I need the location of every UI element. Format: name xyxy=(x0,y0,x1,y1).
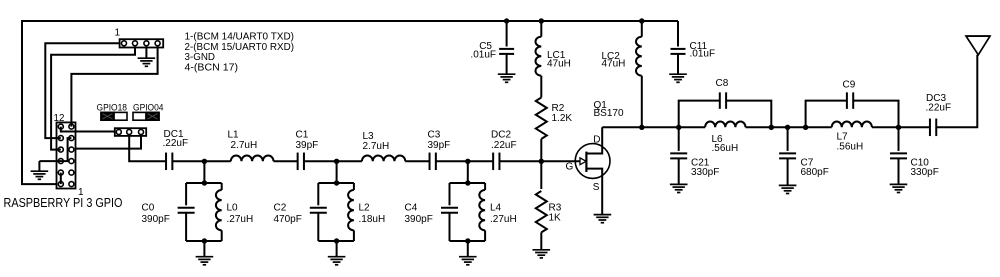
wire R2 to node D xyxy=(540,139,542,161)
connector J1 Raspberry Pi GPIO header body with pins xyxy=(57,122,76,188)
svg-text:C0: C0 xyxy=(142,203,155,214)
wire L3 to C3 xyxy=(405,160,429,162)
inductor L4 xyxy=(484,183,486,190)
resistor R2 xyxy=(536,98,547,139)
svg-text:C8: C8 xyxy=(716,78,729,89)
junction rail LC2 xyxy=(639,18,644,23)
wire R3 to ground xyxy=(540,232,542,249)
wire 3-pin header pin3 to GPIO row3 right xyxy=(76,136,142,149)
capacitor C5 xyxy=(506,21,508,47)
ground under C7 xyxy=(779,184,797,186)
wire jog GPIO row5 left to row6 left xyxy=(60,173,62,185)
wire node B to L3 xyxy=(337,160,362,162)
svg-text:330pF: 330pF xyxy=(911,167,939,178)
jumper block GPIO04 xyxy=(133,112,159,120)
inductor LC2 xyxy=(641,21,643,37)
transistor Q1 gate arrow xyxy=(580,158,586,165)
svg-text:330pF: 330pF xyxy=(691,167,719,178)
ground at GPIO header xyxy=(31,170,49,172)
junction rail LC1 xyxy=(539,18,544,23)
svg-text:.22uF: .22uF xyxy=(163,138,189,149)
svg-text:47uH: 47uH xyxy=(602,59,626,70)
inductor L2 xyxy=(353,183,355,190)
svg-text:2.7uH: 2.7uH xyxy=(231,140,258,151)
svg-text:G: G xyxy=(566,162,574,173)
wire 4-pin header pin1 to GPIO row2 left xyxy=(45,43,119,138)
capacitor C2 xyxy=(317,183,319,205)
wire drain line xyxy=(602,126,705,128)
inductor L0 xyxy=(221,183,223,190)
transistor Q1 source lead xyxy=(586,169,602,215)
ground under tank C2/L2 xyxy=(328,256,346,258)
svg-text:D: D xyxy=(593,134,600,145)
svg-text:L0: L0 xyxy=(227,203,239,214)
junction C8 right xyxy=(769,125,774,130)
capacitor C3 xyxy=(429,153,431,171)
wire C1 to node B xyxy=(304,160,337,162)
capacitor DC3 xyxy=(929,119,931,137)
wire tank top bar xyxy=(186,182,222,184)
inductor L3 xyxy=(362,156,405,162)
svg-text:.56uH: .56uH xyxy=(712,143,739,154)
node B junction xyxy=(334,159,339,164)
capacitor C0 xyxy=(185,183,187,205)
svg-text:C9: C9 xyxy=(843,80,856,91)
svg-text:1.2K: 1.2K xyxy=(552,113,573,124)
svg-text:47uH: 47uH xyxy=(547,59,571,70)
svg-text:39pF: 39pF xyxy=(296,140,319,151)
ground under C10 xyxy=(890,183,908,185)
wire node D to R3 xyxy=(540,161,542,189)
svg-text:1: 1 xyxy=(115,28,121,39)
wire tank top bar xyxy=(318,182,354,184)
svg-text:.27uH: .27uH xyxy=(227,214,254,225)
svg-text:2.7uH: 2.7uH xyxy=(363,141,390,152)
jumper block GPIO18 xyxy=(101,112,127,120)
capacitor C21 xyxy=(678,127,680,151)
svg-text:GPIO18: GPIO18 xyxy=(97,102,128,112)
svg-text:L2: L2 xyxy=(359,203,371,214)
junction tank bottom C2 xyxy=(334,238,339,243)
svg-text:S: S xyxy=(593,182,600,193)
wire node to tank C4/L4 xyxy=(467,161,469,183)
transistor Q1 drain lead xyxy=(586,127,602,153)
capacitor C1 xyxy=(297,153,299,171)
svg-text:.18uH: .18uH xyxy=(359,214,386,225)
capacitor DC1 xyxy=(165,153,167,171)
svg-text:.01uF: .01uF xyxy=(470,50,496,61)
wire node A to L1 xyxy=(204,160,230,162)
svg-text:12: 12 xyxy=(54,113,65,124)
capacitor C7 xyxy=(787,127,789,151)
junction drain C21 C8 xyxy=(676,125,681,130)
capacitor C8 bypass loop xyxy=(679,101,720,128)
svg-text:390pF: 390pF xyxy=(142,214,170,225)
wire tank to ground xyxy=(203,241,205,256)
wire node to tank C0/L0 xyxy=(203,161,205,183)
svg-text:BS170: BS170 xyxy=(594,108,624,119)
antenna xyxy=(966,36,990,55)
resistor R3 xyxy=(536,191,547,232)
capacitor C11 xyxy=(677,21,679,47)
inductor L6 xyxy=(705,122,745,128)
wire L6 to C7 node xyxy=(746,126,832,128)
junction tank bottom C4 xyxy=(465,238,470,243)
inductor LC1 xyxy=(540,21,542,37)
ground at 4-pin header pin3 xyxy=(138,57,156,59)
svg-text:.27uH: .27uH xyxy=(490,214,517,225)
ground under C21 xyxy=(670,183,688,185)
junction C9 right C10 xyxy=(896,125,901,130)
ground under tank C0/L0 xyxy=(196,256,214,258)
connector J3 3-pin jumper header body with pins xyxy=(115,128,146,136)
svg-text:1-(BCM 14/UART0 TXD): 1-(BCM 14/UART0 TXD) xyxy=(185,32,295,43)
wire DC2 to node D xyxy=(500,160,542,162)
wire node to tank C2/L2 xyxy=(336,161,338,183)
junction tank bottom C0 xyxy=(202,238,207,243)
wire L1 to C1 xyxy=(274,160,298,162)
svg-text:.22uF: .22uF xyxy=(491,140,517,151)
wire node C to DC2 xyxy=(468,160,493,162)
junction drain C7 xyxy=(785,125,790,130)
ground under C11 xyxy=(669,73,687,75)
wire 4-pin header pin2 to GPIO row3 left xyxy=(51,48,135,150)
junction tank top C2 xyxy=(334,180,339,185)
svg-text:L4: L4 xyxy=(490,203,502,214)
wire node D to gate xyxy=(541,160,581,162)
connector J2 4-pin header body with pins xyxy=(120,39,164,47)
transistor Q1 channel bar xyxy=(585,152,587,172)
wire power rail from GPIO header pin along left border and top xyxy=(22,21,678,184)
svg-text:C2: C2 xyxy=(274,203,287,214)
ground at Q1 source xyxy=(594,214,612,216)
svg-text:470pF: 470pF xyxy=(274,214,302,225)
junction rail C5 xyxy=(504,18,509,23)
junction tank top C4 xyxy=(465,180,470,185)
wire tank bottom bar xyxy=(450,240,486,242)
junction tank top C0 xyxy=(202,180,207,185)
svg-text:.01uF: .01uF xyxy=(690,49,716,60)
wire 3-pin header pin2 to main line xyxy=(129,136,166,161)
wire tank top bar xyxy=(450,182,486,184)
wire tank bottom bar xyxy=(318,240,354,242)
svg-text:3-GND: 3-GND xyxy=(185,52,215,63)
wire tank to ground xyxy=(467,241,469,256)
svg-text:C4: C4 xyxy=(405,203,418,214)
node A junction xyxy=(202,159,207,164)
svg-text:RASPBERRY PI 3 GPIO: RASPBERRY PI 3 GPIO xyxy=(4,196,123,210)
wire DC3 to antenna xyxy=(936,55,977,128)
wire 4-pin header pin4 to GPIO row1 right xyxy=(71,48,157,127)
transistor Q1 BS170 body circle xyxy=(575,144,610,179)
wire DC1 to node A xyxy=(172,160,204,162)
svg-text:1K: 1K xyxy=(549,213,562,224)
inductor L1 xyxy=(231,156,274,162)
wire 4-pin header pin3 to ground xyxy=(145,48,147,58)
capacitor C9 bypass loop xyxy=(806,101,847,128)
ground under tank C4/L4 xyxy=(459,256,477,258)
ground under R3 xyxy=(533,249,551,251)
svg-text:390pF: 390pF xyxy=(405,214,433,225)
svg-text:GPIO04: GPIO04 xyxy=(133,102,164,112)
wire tank to ground xyxy=(336,241,338,256)
node D junction R2 R3 gate xyxy=(539,159,544,164)
wire ground stem GPIO xyxy=(38,161,40,171)
wire tank bottom bar xyxy=(186,240,222,242)
ground under C5 xyxy=(498,73,516,75)
inductor L7 xyxy=(832,122,872,128)
capacitor C10 xyxy=(898,127,900,151)
svg-text:4-(BCN 17): 4-(BCN 17) xyxy=(185,63,239,74)
wire GPIO row1 left to 3-pin header pin1 xyxy=(61,127,115,132)
svg-text:.22uF: .22uF xyxy=(926,102,952,113)
svg-text:.56uH: .56uH xyxy=(837,142,864,153)
wire C3 to node C xyxy=(436,160,468,162)
svg-text:39pF: 39pF xyxy=(428,140,451,151)
wire L7 to C10 node xyxy=(872,126,930,128)
capacitor DC2 xyxy=(492,153,494,171)
wire GPIO row4 left to ground and row2 right jog xyxy=(39,138,71,161)
svg-text:680pF: 680pF xyxy=(801,167,829,178)
node C junction xyxy=(465,159,470,164)
junction drain LC2 xyxy=(639,125,644,130)
junction C9 left xyxy=(803,125,808,130)
capacitor C4 xyxy=(449,183,451,205)
